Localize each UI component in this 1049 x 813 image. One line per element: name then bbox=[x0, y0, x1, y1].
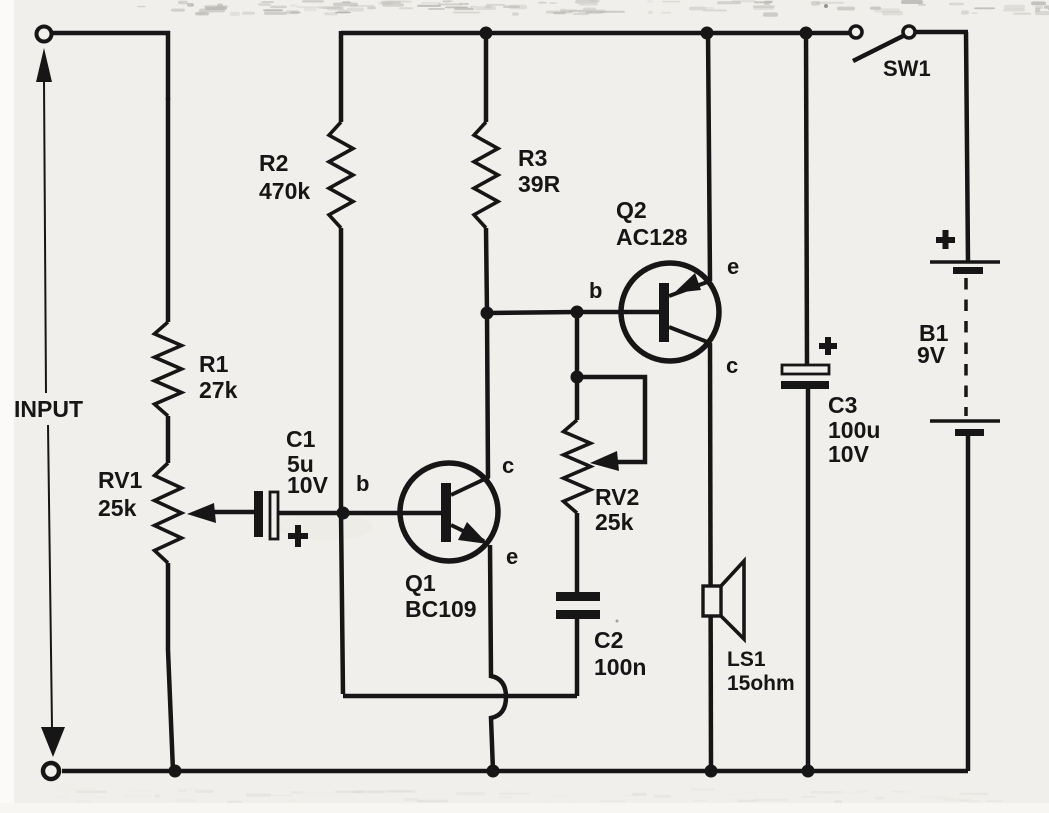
node bottom rail Q1 emitter bbox=[487, 765, 500, 778]
label R3 value bbox=[518, 145, 561, 197]
wire RV2 to C2 bbox=[575, 513, 580, 593]
svg-text:C3: C3 bbox=[828, 392, 857, 418]
svg-text:100n: 100n bbox=[594, 654, 646, 680]
wire R3 to Q1 collector bbox=[486, 228, 488, 478]
resistor R2 bbox=[329, 122, 353, 228]
svg-text:10V: 10V bbox=[287, 472, 329, 498]
svg-text:b: b bbox=[356, 471, 369, 496]
wire R2 column to bottom corner bbox=[341, 228, 343, 694]
label R1 value bbox=[199, 351, 238, 403]
svg-text:39R: 39R bbox=[518, 171, 561, 197]
label LS1 value bbox=[727, 648, 795, 695]
node bottom rail LS1 bbox=[705, 765, 718, 778]
svg-text:100u: 100u bbox=[828, 417, 880, 443]
pin label e of Q2 bbox=[727, 254, 739, 279]
transistor Q1 bbox=[400, 463, 498, 561]
label B1 value bbox=[917, 320, 949, 368]
pin label e of Q1 bbox=[506, 544, 518, 569]
INPUT span arrow bbox=[36, 48, 65, 757]
wire feedback horizontal bbox=[343, 694, 577, 699]
loudspeaker LS1 bbox=[703, 561, 744, 639]
capacitor C2 bbox=[556, 592, 600, 619]
wire left column upper bbox=[166, 98, 171, 322]
wire RV2 wiper loop bbox=[577, 377, 645, 462]
wiper arrow RV2 bbox=[590, 451, 619, 471]
wire top rail right segment bbox=[341, 31, 850, 36]
label INPUT bbox=[14, 396, 83, 422]
label Q2 type bbox=[616, 197, 688, 250]
wire left column lower bbox=[168, 563, 173, 771]
node top rail Q2 bbox=[701, 27, 714, 40]
svg-text:R3: R3 bbox=[518, 145, 547, 171]
label SW1 bbox=[883, 56, 931, 81]
wire switch to right corner bbox=[915, 30, 968, 35]
resistor R3 bbox=[474, 122, 498, 228]
label C2 value bbox=[594, 627, 646, 680]
svg-text:C1: C1 bbox=[286, 426, 316, 452]
capacitor C1 bbox=[254, 491, 308, 547]
svg-text:27k: 27k bbox=[199, 377, 238, 403]
pin label b of Q2 bbox=[589, 278, 602, 303]
svg-text:c: c bbox=[502, 453, 514, 478]
capacitor C3 bbox=[781, 337, 837, 389]
svg-text:R1: R1 bbox=[199, 351, 229, 377]
svg-text:25k: 25k bbox=[98, 495, 137, 521]
svg-text:9V: 9V bbox=[917, 342, 946, 368]
node top rail R3 bbox=[480, 27, 493, 40]
label C1 value bbox=[286, 426, 329, 498]
node top rail C3 bbox=[800, 27, 813, 40]
pin label b of Q1 bbox=[356, 471, 369, 496]
wire Q2 base horizontal bbox=[487, 312, 659, 313]
svg-text:e: e bbox=[506, 544, 518, 569]
wire right rail top bbox=[966, 32, 968, 262]
input terminal bottom bbox=[43, 763, 59, 779]
paper smudges bbox=[277, 4, 828, 623]
svg-text:c: c bbox=[726, 353, 738, 378]
svg-text:BC109: BC109 bbox=[405, 596, 477, 622]
svg-text:10V: 10V bbox=[828, 441, 870, 467]
input terminal top bbox=[37, 27, 52, 42]
svg-text:R2: R2 bbox=[259, 150, 288, 176]
svg-text:15ohm: 15ohm bbox=[727, 672, 795, 695]
svg-text:25k: 25k bbox=[595, 509, 634, 535]
wire R2 column top bbox=[339, 31, 344, 122]
transistor Q2 bbox=[621, 263, 719, 361]
label Q1 type bbox=[405, 570, 477, 622]
svg-text:b: b bbox=[589, 278, 602, 303]
svg-text:Q1: Q1 bbox=[405, 570, 436, 596]
wire C2 bottom riser bbox=[575, 619, 580, 696]
wire Q2 collector column down bbox=[710, 343, 711, 771]
battery B1 bbox=[930, 230, 1000, 436]
wire C1 to base node bbox=[278, 511, 341, 516]
node bottom rail C3 bbox=[802, 765, 815, 778]
wire bottom rail bbox=[62, 769, 968, 774]
label RV2 value bbox=[595, 484, 639, 535]
resistor R1 bbox=[155, 322, 182, 416]
svg-text:SW1: SW1 bbox=[883, 56, 931, 81]
svg-text:470k: 470k bbox=[259, 178, 310, 204]
pin label c of Q2 bbox=[726, 353, 738, 378]
wire Q1 emitter down with hop bbox=[490, 545, 506, 771]
node RV2 wiper loop branch bbox=[571, 371, 584, 384]
wire R3 column top bbox=[484, 31, 489, 122]
wire C3 column top bbox=[806, 31, 807, 365]
potentiometer RV1 bbox=[155, 463, 182, 563]
wiper arrow RV1 bbox=[187, 503, 256, 523]
svg-text:RV2: RV2 bbox=[595, 484, 639, 510]
svg-text:INPUT: INPUT bbox=[14, 396, 83, 422]
svg-text:e: e bbox=[727, 254, 739, 279]
svg-text:LS1: LS1 bbox=[727, 648, 766, 671]
wire base of Q1 bbox=[343, 511, 441, 516]
svg-text:RV1: RV1 bbox=[98, 467, 143, 493]
wire RV2 column upper bbox=[575, 312, 580, 420]
label R2 value bbox=[259, 150, 310, 204]
node RV2 top branch bbox=[571, 306, 584, 319]
label RV1 value bbox=[98, 467, 143, 521]
label C3 value bbox=[828, 392, 880, 467]
node bottom rail left column bbox=[169, 765, 182, 778]
wire Q2 emitter column top bbox=[708, 31, 710, 281]
svg-text:Q2: Q2 bbox=[616, 197, 647, 223]
wire top rail left segment bbox=[52, 33, 168, 100]
wire right rail bottom bbox=[966, 436, 971, 771]
switch SW1 bbox=[850, 26, 915, 61]
svg-text:AC128: AC128 bbox=[616, 224, 688, 250]
node Q2 base branch on R3 column bbox=[481, 307, 494, 320]
node C1 base junction bbox=[337, 507, 350, 520]
potentiometer RV2 bbox=[564, 420, 591, 513]
pin label c of Q1 bbox=[502, 453, 514, 478]
wire C3 column bottom bbox=[806, 389, 811, 771]
wire between R1 and RV1 bbox=[166, 416, 171, 463]
svg-text:C2: C2 bbox=[594, 627, 623, 653]
